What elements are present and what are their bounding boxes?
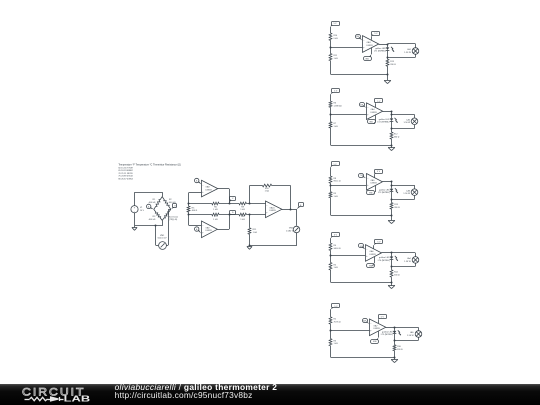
net flag D (OA2 output): [229, 211, 236, 215]
op-amp OA3 (block 1): [363, 36, 379, 53]
resistor R2 (block 5): [329, 317, 341, 324]
wire lamp return (block 4): [392, 263, 416, 266]
wire RG rail upper: [188, 193, 190, 207]
svg-text:LM833: LM833: [371, 183, 378, 185]
ground (block 4): [388, 286, 395, 289]
resistor R8: [239, 202, 246, 211]
annotation temperature table: [118, 163, 181, 180]
ground tag below op-amp (block 4): [367, 257, 375, 268]
wire tap to op-amp (block 4): [331, 255, 366, 257]
wire (block 1 divider mid): [330, 41, 332, 54]
wire R9 to OA3 non-inverting input: [246, 214, 265, 216]
wire to R11: [249, 215, 251, 228]
voltmeter VM2: [286, 226, 300, 233]
wire bottom rail (block 4): [331, 270, 392, 283]
wire lamp return (block 1): [388, 54, 416, 57]
svg-text:LT2 (M78BL): LT2 (M78BL): [377, 122, 389, 124]
wire RG to R7: [189, 214, 212, 216]
node output junction (block 4): [391, 252, 393, 254]
svg-text:LM833: LM833: [374, 328, 381, 330]
net flag 5V (block 3): [331, 162, 340, 168]
ground (OA3 reference): [247, 245, 252, 250]
net flag B (bridge right node): [171, 204, 177, 210]
wire bridge bottom rail: [135, 220, 163, 226]
LED LT2 (block 2): [377, 115, 393, 124]
net flag 80F to inverting input (block 1): [356, 35, 363, 41]
ground (block 5): [391, 360, 398, 363]
wire R8 to OA3 inverting input: [246, 203, 265, 205]
LED LT1 (block 1): [374, 44, 389, 53]
net flag 70F to inverting input (block 3): [359, 174, 367, 179]
svg-text:(TR(t) Ω): (TR(t) Ω): [169, 218, 178, 221]
ground (bridge): [132, 228, 137, 231]
svg-text:9 kΩ: 9 kΩ: [334, 38, 339, 40]
wire (block 3 divider mid): [330, 183, 332, 191]
svg-text:Temperature °F Temperature °C: Temperature °F Temperature °C Thermistor…: [118, 163, 181, 166]
svg-text:galileo LED: galileo LED: [375, 48, 386, 50]
LED LT3 (block 3): [378, 185, 393, 194]
svg-text:340.6 Ω: 340.6 Ω: [334, 248, 342, 250]
svg-text:LM833: LM833: [206, 190, 213, 192]
wire to resistor R13 (block 3): [391, 199, 393, 202]
wire (block 5 divider top): [330, 309, 332, 317]
wire op-amp output (block 1): [379, 44, 388, 46]
wire to lamp (block 3): [392, 185, 415, 189]
svg-text:1.56 W: 1.56 W: [404, 261, 411, 263]
wire LED cathode (block 3): [391, 192, 393, 201]
node divider tap (block 3): [330, 185, 332, 187]
node divider tap (block 2): [330, 114, 332, 116]
svg-text:V1: V1: [140, 207, 142, 209]
svg-text:330 Ω: 330 Ω: [394, 275, 400, 277]
svg-text:1 kΩ: 1 kΩ: [213, 209, 218, 211]
wire lamp return (block 5): [395, 337, 419, 340]
ground tag below op-amp (block 2): [368, 115, 376, 124]
wire bottom rail (block 5): [331, 346, 395, 358]
wire feedback right: [272, 185, 291, 209]
svg-text:1 kΩ: 1 kΩ: [253, 232, 258, 234]
wire to lamp (block 2): [391, 115, 414, 119]
wire feedback left: [250, 185, 263, 203]
net flag 5V (block 1): [331, 22, 340, 27]
resistor R2 (bridge top-right): [162, 197, 176, 210]
net flag B to OA1 inverting input: [195, 178, 202, 184]
wire RG to R6: [189, 203, 212, 205]
resistor R14 (block 4): [390, 270, 400, 277]
wire (block 2 divider mid): [330, 107, 332, 121]
wire VM1 right to bridge: [166, 209, 171, 245]
resistor R10 (block 1): [329, 33, 338, 41]
lamp LA2 (block 2): [404, 118, 418, 125]
svg-text:330 Ω: 330 Ω: [397, 349, 403, 351]
wire OA2 output: [217, 215, 229, 230]
svg-text:1 kΩ: 1 kΩ: [334, 58, 339, 60]
svg-text:LM833: LM833: [206, 230, 213, 232]
wire to ground (block 2): [391, 139, 393, 148]
wire to resistor R12 (block 2): [391, 128, 393, 132]
wire V1 to ground: [134, 213, 136, 228]
lamp LA3 (block 3): [403, 189, 417, 196]
net flag 5V (block 4): [331, 233, 340, 239]
wire lamp return (block 2): [391, 125, 414, 129]
op-amp OA1: [202, 180, 218, 197]
node output junction (block 5): [394, 327, 396, 329]
svg-text:1.082 V: 1.082 V: [286, 230, 294, 232]
wire op-amp output (block 3): [382, 181, 391, 183]
wire LED cathode (block 2): [391, 121, 393, 129]
node output junction (block 3): [391, 181, 393, 183]
net flag 5V supply (block 1): [371, 32, 380, 40]
resistor R15 (block 1): [386, 59, 396, 66]
resistor R4 (block 4): [329, 243, 341, 250]
resistor R5 (block 4): [329, 263, 338, 271]
wire bottom rail (VM2): [250, 245, 297, 247]
svg-text:400 kΩ: 400 kΩ: [149, 219, 156, 221]
resistor R6: [212, 202, 219, 211]
resistor R8 (block 3): [329, 176, 341, 183]
net flag C (OA1 output): [229, 197, 236, 204]
svg-text:1 kΩ: 1 kΩ: [240, 209, 245, 211]
lamp LA5 (block 5): [407, 331, 422, 338]
svg-text:65 18.33 68862: 65 18.33 68862: [118, 170, 133, 172]
LED LT5 (block 5): [381, 327, 397, 336]
wire to resistor R15 (block 1): [387, 57, 389, 59]
LED light arrows (block 5): [398, 330, 401, 335]
op-amp OA4 (block 2): [367, 103, 383, 120]
net flag 5V (block 2): [331, 89, 340, 95]
lamp LA4 (block 4): [404, 257, 419, 264]
svg-text:LT1 (M78BL): LT1 (M78BL): [374, 51, 386, 53]
wire RG rail lower: [188, 212, 190, 225]
LED light arrows (block 2): [395, 118, 398, 123]
svg-text:LM833: LM833: [367, 45, 374, 47]
svg-text:galileo LED: galileo LED: [379, 189, 390, 191]
svg-text:1.56 W: 1.56 W: [404, 52, 411, 54]
wire tap to op-amp (block 2): [331, 114, 367, 116]
svg-text:1 kΩ: 1 kΩ: [213, 219, 218, 221]
node divider tap (block 5): [330, 330, 332, 332]
resistor R9 (block 3): [329, 192, 338, 198]
svg-text:1 kΩ: 1 kΩ: [334, 343, 339, 345]
wire (block 1 divider top): [330, 27, 332, 33]
ground (block 1): [384, 81, 391, 84]
svg-text:galileo LED: galileo LED: [379, 119, 390, 121]
svg-text:330 Ω: 330 Ω: [394, 137, 400, 139]
svg-text:http://circuitlab.com/c95nucf7: http://circuitlab.com/c95nucf73v8bz: [115, 390, 253, 400]
svg-text:330 Ω: 330 Ω: [394, 207, 400, 209]
svg-text:965.1 Ω: 965.1 Ω: [334, 181, 342, 183]
resistor R12 (block 2): [390, 132, 400, 139]
net flag 75F to inverting input (block 2): [360, 103, 367, 108]
wire VM2 to rail: [296, 232, 298, 245]
wire output to VM2: [296, 209, 298, 226]
wire to ground (block 1): [387, 66, 389, 80]
wire (block 2 divider top): [330, 94, 332, 101]
resistor R7: [212, 213, 219, 221]
svg-text:galileo LED: galileo LED: [382, 331, 393, 333]
net flag 5V (block 5): [331, 304, 340, 310]
svg-text:502.6 mV: 502.6 mV: [158, 238, 168, 240]
svg-text:1 kΩ: 1 kΩ: [334, 196, 339, 198]
svg-text:1 kΩ: 1 kΩ: [265, 191, 270, 193]
op-amp OA3 (difference): [266, 201, 282, 218]
resistor R7 (block 2): [329, 122, 338, 128]
svg-text:LT3 (M78BL): LT3 (M78BL): [378, 192, 390, 194]
wire bottom rail (block 2): [331, 128, 392, 146]
wire tap to op-amp (block 1): [331, 47, 363, 49]
wire bottom rail (block 3): [331, 198, 392, 216]
wire R7 to R9: [219, 214, 239, 216]
resistor R6 (block 2): [329, 101, 342, 107]
wire to ground (block 4): [391, 277, 393, 286]
wire to VM1 left: [156, 226, 159, 246]
op-amp OA5 (block 3): [367, 174, 383, 191]
svg-text:400 Ω: 400 Ω: [192, 210, 198, 212]
svg-text:330 Ω: 330 Ω: [390, 64, 396, 66]
LED light arrows (block 1): [391, 47, 394, 52]
wire (block 4 divider mid): [330, 251, 332, 263]
resistor R10 (feedback): [262, 184, 271, 192]
svg-text:LT4 (M78BL): LT4 (M78BL): [378, 260, 390, 262]
svg-text:80 26.67 43964: 80 26.67 43964: [118, 179, 133, 181]
wire to lamp (block 1): [388, 44, 416, 48]
svg-text:1.56 W: 1.56 W: [403, 193, 410, 195]
resistor R3 (bridge bottom-left): [149, 209, 163, 221]
resistor R5 (gain): [187, 206, 197, 212]
svg-text:galileo LED: galileo LED: [379, 257, 390, 259]
resistor R11 label: [253, 229, 258, 234]
net flag 60F to inverting input (block 5): [363, 319, 370, 324]
resistor R16 (block 5): [393, 345, 403, 351]
wire output down to branch (block 2): [391, 111, 393, 115]
svg-text:70 21.11 58220: 70 21.11 58220: [118, 173, 133, 175]
svg-text:LT5 (M78BL): LT5 (M78BL): [381, 334, 393, 336]
resistor R11: [248, 228, 251, 235]
svg-text:LAB: LAB: [64, 394, 91, 403]
net flag 5V supply (block 4): [374, 240, 383, 249]
svg-text:1.56 W: 1.56 W: [407, 335, 414, 337]
wire lamp return (block 3): [392, 196, 415, 200]
wire op-amp output (block 2): [383, 111, 392, 113]
logo resistor symbol: [25, 397, 51, 400]
wire OA3 output: [282, 209, 297, 211]
wire R6 to R8: [219, 203, 239, 205]
ground (block 3): [388, 221, 395, 224]
net flag 65F to inverting input (block 4): [359, 244, 366, 250]
wire (block 4 divider top): [330, 238, 332, 243]
wire output down to branch (block 3): [391, 182, 393, 187]
resistor R9: [239, 213, 246, 221]
wire to ground (block 5): [394, 351, 396, 360]
resistor R11 (block 1): [329, 54, 338, 61]
op-amp OA7 (block 5): [370, 319, 386, 336]
thermistor RT (bridge bottom-right): [162, 209, 178, 221]
svg-text:75 23.89 49132: 75 23.89 49132: [118, 176, 133, 178]
LED light arrows (block 4): [395, 256, 398, 261]
resistor R13 (block 3): [390, 203, 400, 210]
wire to resistor R14 (block 4): [391, 266, 393, 269]
ground tag below op-amp (block 5): [371, 331, 379, 343]
wire op-amp output (block 5): [386, 327, 395, 329]
wire to OA2 −: [189, 225, 201, 227]
net flag A to OA2 non-inverting input: [195, 227, 202, 234]
svg-text:OA10: OA10: [270, 206, 276, 209]
op-amp OA2: [202, 221, 218, 238]
ground tag below op-amp (block 1): [364, 48, 372, 61]
op-amp OA6 (block 4): [366, 245, 382, 262]
node output junction (block 2): [391, 111, 393, 113]
svg-text:400 kΩ: 400 kΩ: [149, 202, 156, 204]
wire V1 to bridge top: [135, 192, 163, 206]
svg-text:1.56 W: 1.56 W: [404, 122, 411, 124]
voltmeter VM1: [158, 235, 168, 250]
ground (block 2): [388, 148, 395, 151]
wire LED cathode (block 5): [394, 334, 396, 342]
wire op-amp output (block 4): [382, 252, 392, 254]
node output junction (block 1): [387, 44, 389, 46]
wire OA1 output: [218, 189, 230, 204]
wire to ground (block 3): [391, 209, 393, 220]
svg-text:LM833: LM833: [371, 112, 378, 114]
svg-text:1 kΩ: 1 kΩ: [334, 267, 339, 269]
net flag A (bridge left node): [147, 204, 154, 209]
wire to resistor R16 (block 5): [394, 341, 396, 345]
svg-text:1.588 kΩ: 1.588 kΩ: [334, 105, 343, 107]
lamp LA1 (block 1): [404, 48, 419, 55]
net flag 5V supply (block 5): [378, 315, 386, 324]
wire LED cathode (block 4): [391, 259, 393, 267]
footer bar: [0, 384, 540, 405]
svg-text:1 kΩ: 1 kΩ: [240, 219, 245, 221]
svg-text:LM833: LM833: [370, 254, 377, 256]
resistor R3 (block 5): [329, 339, 338, 346]
wire to lamp (block 5): [395, 327, 419, 330]
wire (block 5 divider mid): [330, 324, 332, 339]
LED LT4 (block 4): [378, 253, 394, 262]
wire bottom rail (block 1): [331, 61, 388, 75]
node divider tap (block 1): [330, 47, 332, 49]
net flag 5V supply (block 3): [375, 170, 383, 178]
logo diode symbol: [51, 397, 64, 401]
ground tag below op-amp (block 3): [367, 186, 376, 195]
wire to OA1 +: [189, 192, 202, 194]
LED light arrows (block 3): [395, 188, 398, 193]
resistor R1 (bridge top-left): [149, 197, 163, 210]
svg-text:60 15.56 77639: 60 15.56 77639: [118, 167, 133, 169]
net flag 5V supply (block 2): [375, 99, 383, 108]
wire to lamp (block 4): [392, 253, 416, 257]
wire tap to op-amp (block 3): [331, 185, 367, 187]
svg-text:1 kΩ: 1 kΩ: [334, 126, 339, 128]
wire tap to op-amp (block 5): [331, 330, 370, 332]
svg-text:76.95 Ω: 76.95 Ω: [334, 322, 342, 324]
wire (block 3 divider top): [330, 167, 332, 176]
voltage source V1: [131, 206, 145, 214]
net flag E (amplifier output): [297, 203, 304, 210]
svg-text:thermistor: thermistor: [169, 216, 179, 219]
wire R11 to rail: [249, 234, 251, 245]
node divider tap (block 4): [330, 255, 332, 257]
wire LED cathode (block 1): [387, 50, 389, 58]
svg-text:LM833: LM833: [270, 210, 277, 212]
